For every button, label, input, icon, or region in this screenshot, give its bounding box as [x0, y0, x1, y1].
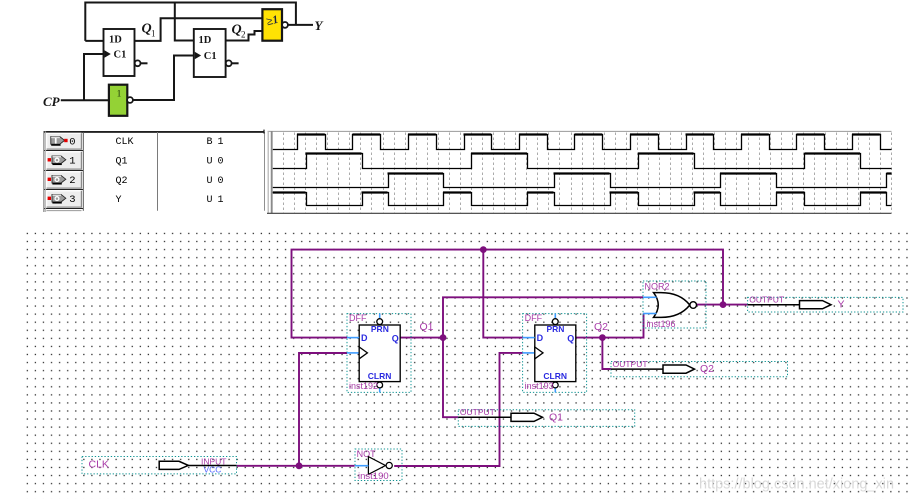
svg-text:Q1: Q1 — [420, 321, 434, 333]
svg-text:C1: C1 — [204, 51, 217, 62]
svg-text:0: 0 — [218, 156, 224, 167]
svg-text:3: 3 — [69, 194, 75, 206]
svg-text:Q2: Q2 — [116, 176, 128, 187]
svg-text:inst193: inst193 — [525, 381, 554, 391]
svg-text:OUTPUT: OUTPUT — [613, 359, 648, 369]
svg-text:Q: Q — [392, 333, 399, 343]
svg-text:DFF: DFF — [349, 313, 367, 323]
svg-text:C1: C1 — [114, 50, 127, 61]
svg-text:VCC: VCC — [204, 464, 222, 474]
svg-text:1: 1 — [218, 195, 224, 206]
svg-text:1D: 1D — [199, 35, 212, 46]
svg-text:OUTPUT: OUTPUT — [460, 407, 495, 417]
svg-text:U: U — [207, 176, 213, 187]
svg-text:NOR2: NOR2 — [645, 281, 670, 291]
svg-text:Q1: Q1 — [549, 411, 563, 423]
svg-text:1: 1 — [218, 137, 224, 148]
svg-text:PRN: PRN — [547, 324, 565, 334]
svg-text:2: 2 — [69, 175, 75, 187]
svg-text:Y: Y — [315, 18, 324, 33]
svg-text:0: 0 — [218, 176, 224, 187]
svg-text:1D: 1D — [109, 35, 122, 46]
svg-text:NOT: NOT — [357, 449, 377, 459]
svg-text:B: B — [207, 137, 213, 148]
svg-text:1: 1 — [117, 90, 122, 100]
svg-text:DFF: DFF — [525, 313, 543, 323]
svg-text:https://blog.csdn.net/xiong_xi: https://blog.csdn.net/xiong_xin — [699, 477, 894, 493]
svg-text:Q2: Q2 — [700, 363, 714, 375]
svg-text:1: 1 — [151, 29, 156, 39]
svg-text:PRN: PRN — [371, 324, 389, 334]
svg-text:1: 1 — [69, 156, 75, 168]
svg-text:inst196: inst196 — [647, 319, 676, 329]
svg-text:Y: Y — [838, 299, 845, 311]
svg-text:U: U — [207, 156, 213, 167]
svg-text:CP: CP — [43, 94, 61, 109]
svg-text:Q1: Q1 — [116, 156, 128, 167]
svg-text:CLRN: CLRN — [368, 371, 392, 381]
svg-text:Q2: Q2 — [594, 321, 608, 333]
svg-text:CLRN: CLRN — [543, 371, 567, 381]
svg-text:D: D — [537, 333, 544, 343]
svg-text:CLK: CLK — [89, 459, 109, 471]
svg-text:0: 0 — [69, 136, 75, 148]
svg-text:CLK: CLK — [116, 137, 134, 148]
svg-text:OUTPUT: OUTPUT — [749, 295, 784, 305]
svg-text:inst192: inst192 — [349, 381, 378, 391]
svg-text:2: 2 — [241, 30, 246, 40]
svg-text:Q: Q — [567, 333, 574, 343]
svg-text:Y: Y — [116, 195, 122, 206]
svg-text:U: U — [207, 195, 213, 206]
svg-text:inst190: inst190 — [358, 471, 389, 482]
svg-text:D: D — [361, 333, 368, 343]
